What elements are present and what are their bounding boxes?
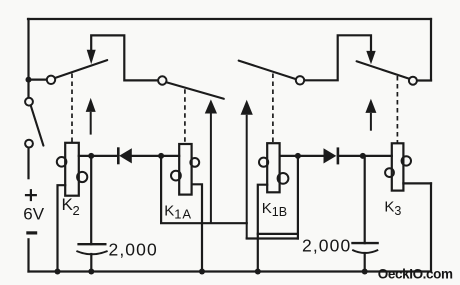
svg-text:K: K <box>384 198 394 215</box>
battery minus symbol <box>26 231 37 234</box>
contact circle 3 <box>296 76 304 84</box>
arrow shaft arrow 2 tap <box>246 115 248 239</box>
wire arrow2 tap bottom run <box>247 237 298 239</box>
arrowhead up arrow 2 tap <box>241 100 253 115</box>
wire K1A bottom exit to bottom rail <box>192 184 202 271</box>
arrow shaft arrow 1 tap <box>210 114 212 224</box>
battery plus symbol <box>25 189 37 201</box>
switch S1 lower contact <box>25 140 33 148</box>
svg-text:3: 3 <box>394 204 401 218</box>
wire node K1B-right vertical drop <box>297 156 299 239</box>
contact circle 2 <box>158 76 166 84</box>
wire K2 coil to diode D1 <box>79 155 119 157</box>
capacitor C1 <box>76 244 107 254</box>
svg-text:1A: 1A <box>174 206 192 221</box>
wire capacitor C2 bottom lead <box>364 253 366 272</box>
capacitor C2 <box>351 243 379 253</box>
arrowhead down onto blade 4 <box>366 51 375 64</box>
mechanical link dashed K1B <box>272 74 274 143</box>
junction node dots <box>26 77 368 275</box>
wire battery minus to bottom rail <box>27 239 29 271</box>
contact circle 1 <box>47 76 55 84</box>
contact circle 4 <box>409 77 417 85</box>
wire K2 bottom exit to bottom rail <box>58 185 66 271</box>
label K2 <box>62 195 80 218</box>
arrowhead down onto blade 1 <box>87 50 96 64</box>
wire capacitor C2 top lead <box>364 156 366 243</box>
relay coil K1A <box>171 144 199 195</box>
diode D2 <box>324 147 338 164</box>
wire contact 4 stationary lead <box>417 79 431 81</box>
arrowhead up arrow 1 tap <box>205 99 217 113</box>
contact blade 1 of relay K2 <box>55 60 107 78</box>
wire capacitor C1 top lead <box>90 156 92 244</box>
wire right vertical K3 to bottom rail <box>430 183 432 271</box>
wire switch to battery plus <box>27 148 29 179</box>
svg-text:6V: 6V <box>23 204 44 223</box>
relay coil K1B <box>259 143 288 192</box>
contact blade 2 of relay K1A <box>166 82 224 99</box>
svg-text:K: K <box>164 202 174 219</box>
wire K1B bottom-left exit to bottom rail <box>258 185 267 272</box>
arrow shaft small K2 armature <box>90 112 92 135</box>
svg-text:OeckIO.com: OeckIO.com <box>378 267 453 282</box>
relay coil K2 <box>57 143 87 196</box>
contact blade 3 of relay K1B <box>239 61 296 80</box>
contact blade 4 of relay K3 <box>357 61 409 78</box>
wire right vertical from top rail down to contact K3 <box>430 19 432 80</box>
svg-text:2,000: 2,000 <box>109 240 158 260</box>
mechanical link dashed K3 <box>396 76 398 143</box>
wire bottom ground rail <box>29 270 432 272</box>
svg-text:K: K <box>262 200 272 217</box>
label K1B <box>262 200 287 219</box>
wire node K1A-left down and right to arrow armature taps <box>161 156 247 223</box>
diode D1 <box>118 147 132 164</box>
mechanical link dashed K2 <box>71 74 73 143</box>
wire K1B coil to diode D2 <box>280 155 324 157</box>
wire capacitor C1 bottom lead <box>90 254 92 272</box>
relay coil K3 <box>385 143 411 190</box>
wire armature 1 feed: down-arrow lead and jog to contact circle 2 <box>91 35 158 80</box>
arrowhead up small K2 armature <box>86 98 96 112</box>
label K3 <box>384 198 401 218</box>
wire left rail from top rail down to switch <box>27 19 29 98</box>
wire diode D2 to K3 coil <box>338 155 392 157</box>
svg-text:2,000: 2,000 <box>302 236 351 256</box>
label K1A <box>164 202 192 221</box>
wire top supply rail <box>28 18 431 20</box>
svg-text:2: 2 <box>73 203 80 218</box>
wire contact 3 stationary lead and riser to down-arrow 2 <box>304 35 371 80</box>
wire diode D1 to K1A <box>132 155 179 157</box>
arrow shaft small K3 armature <box>370 113 372 131</box>
arrowhead up small K3 armature <box>365 99 376 113</box>
switch S1 upper contact <box>25 98 33 106</box>
wire K3 coil right exit <box>403 182 431 184</box>
wire K1B lower tie bar <box>258 233 298 235</box>
wire stub to contact circle 1 <box>29 78 47 80</box>
svg-text:1B: 1B <box>272 205 287 219</box>
switch S1 blade <box>31 106 44 146</box>
mechanical link dashed K1A <box>184 89 186 143</box>
